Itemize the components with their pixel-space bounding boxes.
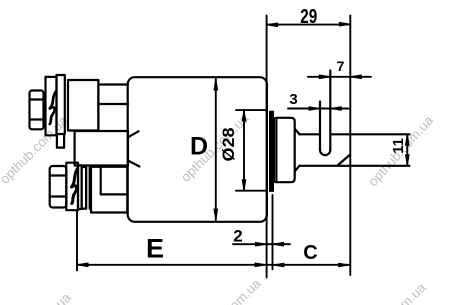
upper terminal block A (68, 80, 98, 131)
dimension O28 top extension line (236, 109, 267, 111)
dimension 7 left arrow (319, 75, 330, 79)
bearing hub (276, 118, 299, 182)
extension line at rod end x=350.3 (349, 16, 351, 276)
plunger rod end chamfer (338, 155, 350, 166)
upper bolt hex head (30, 91, 44, 130)
svg-text:29: 29 (300, 5, 317, 28)
dimension E left arrow (77, 263, 88, 267)
plunger rod slot left wall + extension line up (319, 102, 321, 151)
middle block bottom weld tick (129, 161, 140, 167)
dimension C right arrow (339, 263, 350, 267)
dimension 3 line (288, 108, 348, 110)
upper terminal plate2 (57, 75, 65, 134)
plunger rod slot right wall + extension line up (329, 71, 331, 151)
dimension O28 top arrow (242, 110, 246, 121)
dimension 29 left arrow (267, 23, 278, 27)
svg-text:D: D (190, 133, 208, 161)
svg-text:C: C (303, 242, 317, 264)
dimension 3 right arrow (330, 107, 341, 111)
upper terminal block B (98, 85, 128, 131)
lower terminal plate3 (82, 167, 87, 209)
svg-text:opthub.com.ua: opthub.com.ua (190, 276, 264, 305)
lower terminal band4 (86, 167, 90, 209)
upper terminal block B step line (98, 103, 128, 105)
upper bolt hex facet line 2 (30, 118, 44, 120)
svg-text:opthub.com.ua: opthub.com.ua (0, 290, 74, 305)
extension line at body front face x=266.6 (266, 16, 268, 278)
svg-text:7: 7 (337, 58, 345, 74)
dimension 11 bottom arrow (406, 155, 410, 166)
lower bolt hex facet line 2 (50, 195, 67, 197)
upper bolt screw slot mark (50, 92, 56, 125)
dimension O28 line (243, 110, 245, 191)
extension line 2-dim right x=272.5 (272, 195, 274, 269)
extension line at bolt washer x=77 (76, 211, 78, 271)
middle block (75, 131, 128, 166)
dimension 11 top extension already rod edges; dimension 11 line (406, 134, 408, 166)
dimension 29 line (267, 24, 351, 26)
dimension 3 left arrow (309, 107, 320, 111)
svg-text:2: 2 (233, 227, 242, 246)
middle block top weld tick (129, 131, 139, 137)
upper bolt hex facet line 1 (30, 98, 44, 100)
plunger rod bottom edge + 11 dim extension (300, 165, 410, 167)
solenoid body outline (128, 77, 267, 222)
dimension E and C shared line (77, 264, 350, 266)
svg-text:Ø28: Ø28 (220, 128, 238, 162)
front flange plate (270, 111, 274, 191)
lower terminal block outline (91, 167, 127, 213)
upper terminal plate bottom tab (57, 134, 64, 148)
svg-text:3: 3 (289, 91, 297, 108)
dimension O28 bottom arrow (242, 180, 246, 191)
plunger rod top edge right segment + 11 dim extension (330, 133, 409, 135)
lower bolt hex facet line 1 (50, 174, 67, 176)
dimension 11 top arrow (406, 134, 410, 145)
dimension D bottom arrow (214, 209, 218, 220)
dimension 2 left arrow (256, 242, 267, 246)
svg-text:opthub.com.ua: opthub.com.ua (355, 280, 429, 305)
dimension 7 line (308, 76, 371, 78)
dimension E right arrow (255, 263, 266, 267)
dimension 7 right arrow (350, 75, 361, 79)
svg-text:11: 11 (390, 138, 407, 154)
dimension 2 right arrow (273, 242, 284, 246)
dimension O28 bottom extension line (236, 190, 267, 192)
dimension 2 line (233, 243, 290, 245)
lower terminal washer2 (78, 165, 82, 209)
dimension D top arrow (214, 79, 218, 90)
lower bolt screw slot mark (72, 169, 78, 204)
dimension 29 right arrow (339, 22, 350, 26)
dimension D line (215, 79, 217, 220)
front washer band (275, 118, 277, 182)
plunger rod slot U bottom (320, 148, 330, 155)
svg-text:E: E (146, 234, 164, 264)
lower bolt hex head (50, 166, 67, 208)
lower terminal washer with slot mark (66, 163, 78, 211)
upper terminal washer plate (46, 77, 57, 135)
lower terminal block inner notch (101, 167, 128, 195)
plunger rod top edge left segment (300, 133, 321, 135)
dimension C left arrow (273, 263, 284, 267)
